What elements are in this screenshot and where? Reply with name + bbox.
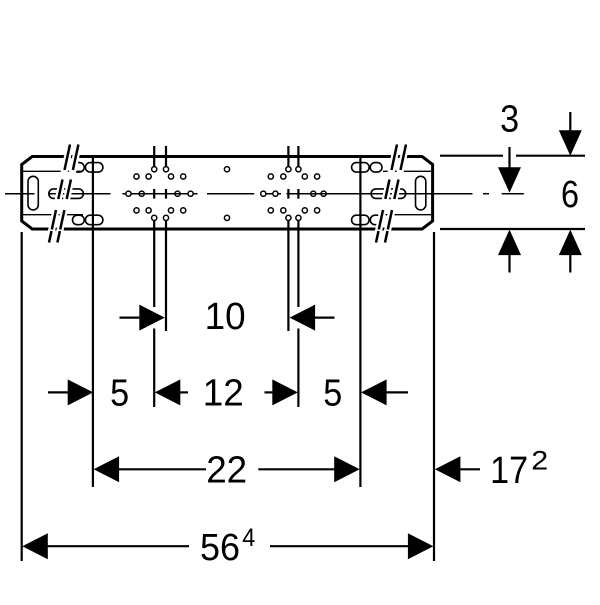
dimension 56 superscript 4 (overall length): [22, 524, 433, 569]
extension line left slot centre: [92, 157, 94, 487]
svg-text:5: 5: [110, 372, 129, 414]
holes (open): [134, 167, 326, 221]
top slot A right: [370, 163, 382, 173]
fold line bottom-left: [22, 214, 83, 216]
vertical slot right end: [416, 176, 426, 210]
svg-text:12: 12: [203, 372, 244, 414]
dimension 12 (hole pair spacing): [155, 372, 298, 414]
fold line bottom-right: [383, 214, 433, 216]
dimension 5 (right): [323, 372, 408, 414]
centerline (horizontal dash-dot axis): [5, 193, 524, 195]
extension line hole column L1: [153, 146, 155, 407]
svg-text:5: 5: [323, 372, 342, 414]
svg-text:17: 17: [490, 450, 528, 492]
mid slot left (on centerline): [49, 189, 84, 199]
top slot B left: [85, 163, 103, 173]
dimension 10 (inner hole spacing): [120, 296, 335, 338]
top slot A left: [73, 163, 85, 173]
holes (white-filled, lines stop at them): [126, 167, 301, 221]
fold line top-left: [22, 170, 83, 172]
plate outline (rail body, chamfered ends): [22, 157, 433, 230]
fold line top-right: [383, 170, 433, 172]
extension line right slot centre: [359, 157, 361, 487]
extension line plate left edge: [21, 232, 23, 561]
svg-text:3: 3: [500, 99, 519, 141]
dimension 22 (slot spacing): [94, 449, 360, 491]
dimension 5 (left): [48, 372, 129, 414]
break line right (double slash): [376, 145, 406, 243]
extension line hole column L2: [165, 146, 167, 331]
svg-text:22: 22: [206, 449, 247, 491]
svg-text:4: 4: [242, 524, 255, 552]
extension line right datum: [433, 232, 435, 561]
bottom slot A right: [370, 215, 382, 225]
svg-text:10: 10: [205, 296, 246, 338]
break line left (double slash): [49, 145, 78, 243]
bottom slot B right: [352, 215, 370, 225]
top slot B right: [352, 163, 370, 173]
mid slot right (on centerline): [371, 189, 406, 199]
extension line bottom edge (right side): [440, 228, 585, 230]
svg-text:2: 2: [531, 446, 548, 476]
dimension 6 (plate height): [498, 112, 582, 273]
dimension 17 superscript 2 (offset to right): [435, 446, 548, 493]
svg-text:6: 6: [561, 174, 579, 216]
bottom slot B left: [85, 215, 103, 225]
bottom slot A left: [73, 215, 85, 225]
dimension 3 (top edge to hole axis): [498, 99, 521, 193]
vertical slot left end: [28, 176, 38, 210]
extension line top edge (right side): [440, 155, 585, 157]
svg-text:56: 56: [200, 527, 240, 569]
extension line hole column R1: [287, 146, 289, 331]
extension line hole column R2: [297, 146, 299, 407]
